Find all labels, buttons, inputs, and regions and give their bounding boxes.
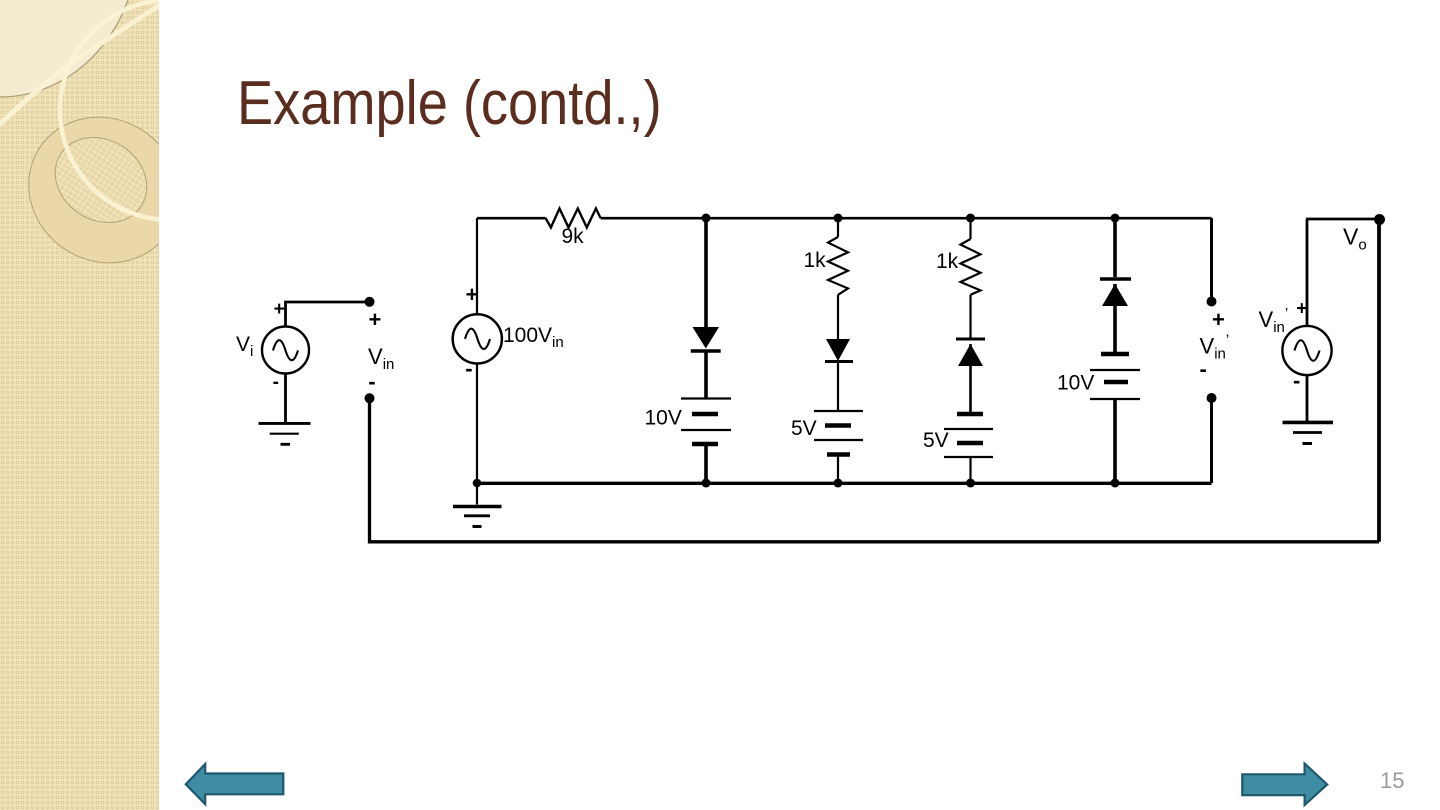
node branch2 bottom: [834, 479, 843, 488]
resistor 1k (branch2 vertical zigzag): [828, 237, 848, 295]
source Vi (sine voltage source): [262, 327, 309, 374]
cream arc: [60, 0, 280, 220]
wire resistor to diode (branch3): [969, 295, 971, 339]
svg-text:100Vin: 100Vin: [503, 324, 564, 351]
node branch2 top: [834, 214, 843, 223]
wire stub to ground: [476, 483, 478, 505]
label + (Vin port): [369, 307, 382, 332]
wire branch2 upper: [837, 218, 839, 237]
battery 10V (branch4): [1090, 354, 1140, 399]
label + (100Vin top): [466, 282, 479, 307]
diode D2 (pointing down): [825, 339, 853, 362]
svg-text:+: +: [1212, 307, 1225, 332]
source 100Vin (dependent sine source): [453, 314, 502, 363]
diode D3 (pointing up): [956, 339, 985, 366]
label Vin (port): [368, 344, 394, 373]
ground (right source): [1283, 422, 1334, 443]
node junction at bottom rail left: [473, 479, 482, 488]
svg-text:1k: 1k: [936, 250, 959, 273]
node branch4 bottom: [1111, 479, 1120, 488]
node Vin' + terminal: [1207, 297, 1217, 307]
node Vin- terminal: [365, 393, 375, 403]
wire branch4 upper (thick): [1113, 218, 1117, 277]
label 100Vin: [503, 324, 564, 351]
slide title: [237, 68, 662, 139]
node branch3 bottom: [966, 479, 975, 488]
wire battery to bottom rail (branch1): [704, 444, 708, 483]
navigation arrow right: [1242, 764, 1327, 806]
wire battery to bottom rail (branch4): [1113, 399, 1117, 483]
svg-text:Vin’: Vin’: [1259, 305, 1289, 336]
battery 5V (branch3): [944, 414, 993, 457]
svg-text:+: +: [369, 307, 382, 332]
wire right edge vertical: [1377, 220, 1381, 542]
label 10V (branch1): [645, 407, 682, 430]
source Vin' (right sine source): [1282, 326, 1331, 375]
label Vin' (port): [1200, 332, 1230, 363]
light ellipse top-left: [0, 0, 138, 97]
wire 100Vin top to top rail: [476, 218, 478, 315]
wire D1 to battery: [704, 351, 708, 398]
label + (right source): [1296, 299, 1307, 320]
ground (below Vi): [259, 423, 311, 444]
label 5V (branch2): [791, 417, 817, 440]
node branch1 top: [702, 214, 711, 223]
label Vi: [236, 333, 253, 360]
svg-text:-: -: [368, 369, 375, 394]
wire battery to bottom rail (branch3): [969, 457, 971, 483]
label Vo: [1343, 224, 1367, 254]
svg-text:+: +: [274, 299, 285, 320]
wire Vi bottom to ground: [284, 374, 287, 423]
label - (right source): [1293, 368, 1300, 393]
diode D4 (pointing up): [1100, 279, 1131, 306]
wire D2 to battery (branch2): [837, 362, 839, 412]
node Vo: [1374, 214, 1385, 225]
wire D3 to battery (branch3): [969, 344, 972, 414]
label - (100Vin bottom): [465, 356, 472, 381]
label 9k: [562, 225, 585, 248]
wire Vin- down and long bottom return wire: [370, 398, 1380, 542]
ground (below bottom rail): [453, 507, 502, 527]
label - (Vi bottom): [273, 372, 279, 393]
wire top rail right segment: [601, 217, 1212, 220]
label 10V (branch4): [1057, 372, 1094, 395]
wire bottom rail: [477, 482, 1212, 485]
svg-text:9k: 9k: [562, 225, 585, 248]
svg-text:5V: 5V: [923, 429, 949, 452]
cream corner sweep arc: [0, 0, 175, 128]
svg-text:Vi: Vi: [236, 333, 253, 360]
svg-text:-: -: [1293, 368, 1300, 393]
node Vin' - terminal: [1207, 393, 1217, 403]
wire Vo source bottom to ground: [1306, 375, 1309, 421]
resistor 9k (horizontal zigzag): [546, 209, 601, 228]
wire branch1 upper (thick): [704, 218, 708, 328]
wire Vo top horizontal: [1306, 218, 1380, 221]
label 1k (branch3): [936, 250, 959, 273]
ring ellipse decoration: [1, 89, 207, 292]
battery 5V (branch2): [814, 411, 863, 455]
battery 10V (branch1): [681, 399, 731, 445]
page number: [1380, 768, 1404, 794]
node branch1 bottom: [702, 479, 711, 488]
svg-text:10V: 10V: [645, 407, 682, 430]
navigation arrow left: [186, 764, 283, 804]
svg-text:-: -: [273, 372, 279, 393]
svg-text:Vo: Vo: [1343, 224, 1367, 254]
svg-text:10V: 10V: [1057, 372, 1094, 395]
svg-text:+: +: [1296, 299, 1307, 320]
label Vin' (right source): [1259, 305, 1289, 336]
svg-text:-: -: [1200, 357, 1207, 382]
svg-text:5V: 5V: [791, 417, 817, 440]
label - (Vin port): [368, 369, 375, 394]
wire branch3 upper: [969, 218, 971, 239]
wire 100Vin bottom to bottom rail: [476, 363, 478, 483]
label + (Vi top): [274, 299, 285, 320]
wire battery to bottom rail (branch2): [837, 455, 839, 484]
node branch3 top: [966, 214, 975, 223]
svg-text:1k: 1k: [804, 249, 827, 272]
label 1k (branch2): [804, 249, 827, 272]
wire Vi top to node Vin+: [286, 302, 370, 327]
wire resistor to diode (branch2): [837, 295, 839, 339]
wire D4 to battery (branch4): [1113, 284, 1117, 354]
wire top rail left segment: [477, 217, 546, 220]
wire right rail lower: [1210, 398, 1213, 483]
label - (Vin' port): [1200, 357, 1207, 382]
resistor 1k (branch3 vertical zigzag): [961, 239, 981, 295]
wire right rail upper: [1210, 218, 1213, 302]
diode D1 (pointing down): [691, 327, 721, 351]
node Vin+ terminal: [365, 297, 375, 307]
node branch4 top: [1111, 214, 1120, 223]
label + (Vin' port): [1212, 307, 1225, 332]
svg-text:-: -: [465, 356, 472, 381]
label 5V (branch3): [923, 429, 949, 452]
left decorative sidebar: [0, 0, 159, 810]
wire Vo source top: [1306, 219, 1309, 326]
